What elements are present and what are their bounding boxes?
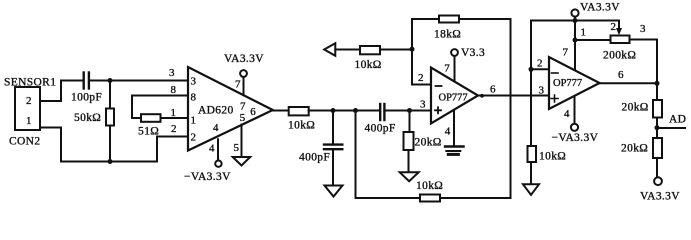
wire opamp pin7 (middle) — [444, 56, 454, 81]
svg-text:18kΩ: 18kΩ — [434, 29, 461, 41]
ground open triangle (10k right) — [523, 184, 539, 195]
svg-text:V3.3: V3.3 — [461, 47, 485, 59]
power V3.3 terminal (middle opamp) — [451, 47, 485, 59]
resistor R 10kΩ (pin2 to ground) — [528, 69, 567, 184]
node top of 50k — [108, 78, 113, 83]
svg-text:400pF: 400pF — [365, 123, 396, 135]
node VA3.3V on top rail — [573, 18, 578, 23]
svg-text:6: 6 — [618, 69, 624, 81]
node pot pin1 junction — [573, 38, 578, 43]
wire node AD — [657, 114, 686, 129]
node at middle output tip — [480, 94, 484, 98]
svg-text:−VA3.3V: −VA3.3V — [184, 171, 231, 183]
svg-text:4: 4 — [209, 143, 215, 155]
wire 100pF to AD620 pin3 — [90, 80, 188, 82]
wire connector pin1 bottom path to AD620 pin2 — [40, 128, 188, 162]
svg-text:20kΩ: 20kΩ — [622, 102, 649, 114]
node bottom of 50k — [108, 159, 113, 164]
wire 10k to inverting node — [380, 49, 412, 51]
svg-text:SENSOR1: SENSOR1 — [4, 77, 56, 89]
svg-text:2: 2 — [611, 21, 617, 33]
resistor R 18kΩ (feedback) — [412, 16, 511, 199]
capacitor C 400pF shunt — [299, 111, 342, 186]
node inverting input junction — [410, 47, 415, 52]
svg-text:7: 7 — [240, 101, 246, 113]
svg-text:10kΩ: 10kΩ — [355, 59, 382, 71]
resistor R 10kΩ (input) — [355, 46, 382, 71]
svg-text:10kΩ: 10kΩ — [416, 180, 443, 192]
svg-text:3: 3 — [539, 85, 545, 97]
svg-text:8: 8 — [171, 84, 177, 96]
svg-text:20kΩ: 20kΩ — [621, 143, 648, 155]
svg-text:3: 3 — [169, 67, 175, 79]
input port triangle — [324, 43, 335, 56]
wire AD620 pin5 — [234, 125, 242, 158]
ground open triangle (shunt cap) — [325, 186, 343, 197]
svg-text:8: 8 — [191, 92, 197, 104]
wire middle output to right opamp pin3 — [478, 84, 549, 96]
svg-text:1: 1 — [26, 115, 32, 127]
node pin2 right opamp — [529, 67, 534, 72]
svg-text:100pF: 100pF — [71, 92, 102, 104]
svg-text:OP777: OP777 — [553, 78, 582, 89]
svg-text:VA3.3V: VA3.3V — [224, 53, 264, 65]
svg-text:2: 2 — [537, 58, 543, 70]
wire pot pin1 — [575, 27, 611, 41]
wire series cap to opamp pin3 — [385, 110, 431, 112]
svg-text:3: 3 — [640, 23, 646, 35]
svg-text:2: 2 — [191, 132, 197, 144]
wire input to 10k — [335, 49, 360, 51]
wire top rail y=20.5 (pin2 net of right opamp) — [531, 21, 619, 70]
svg-text:1: 1 — [581, 27, 587, 39]
node AD tap — [655, 125, 660, 130]
svg-text:10kΩ: 10kΩ — [288, 120, 315, 132]
svg-text:3: 3 — [420, 99, 426, 111]
wire VA3.3V down to pin7 right opamp — [563, 21, 576, 70]
svg-text:4: 4 — [445, 126, 451, 138]
svg-text:OP777: OP777 — [439, 92, 468, 103]
wire AD620 pin8 down-left — [132, 96, 188, 119]
svg-text:200kΩ: 200kΩ — [603, 50, 636, 62]
wire bottom feedback loop — [356, 111, 511, 199]
svg-text:6: 6 — [490, 84, 496, 96]
svg-text:2: 2 — [171, 123, 177, 135]
svg-text:CON2: CON2 — [9, 136, 40, 148]
op-amp OP777 (right) — [537, 57, 600, 109]
wire right opamp output — [600, 69, 658, 83]
svg-text:10kΩ: 10kΩ — [539, 151, 566, 163]
wire right opamp pin4 — [564, 96, 575, 123]
svg-text:51Ω: 51Ω — [138, 126, 159, 138]
svg-text:50kΩ: 50kΩ — [74, 112, 101, 124]
svg-text:−VA3.3V: −VA3.3V — [552, 132, 599, 144]
svg-text:2: 2 — [418, 72, 424, 84]
wire pot pin3 to output node — [630, 40, 658, 84]
svg-text:AD: AD — [669, 114, 686, 126]
resistor R 20kΩ (middle shunt) — [404, 111, 442, 173]
svg-text:6: 6 — [250, 106, 256, 118]
op-amp OP777 (middle) — [418, 68, 478, 124]
svg-text:VA3.3V: VA3.3V — [640, 191, 680, 203]
resistor R 10kΩ (AD620 output) — [288, 107, 315, 132]
wire connector pin2 to 100pF — [40, 81, 83, 102]
power -VA3.3V terminal (AD620 pin4) — [184, 161, 231, 184]
capacitor C 100pF — [71, 73, 102, 104]
svg-text:4: 4 — [213, 122, 219, 134]
svg-text:5: 5 — [240, 112, 246, 124]
svg-text:7: 7 — [235, 79, 241, 91]
resistor R 20kΩ (upper right) — [622, 83, 663, 138]
wire vertical inverting node / pin2 — [412, 19, 431, 85]
wire AD620 pin7 — [235, 77, 244, 95]
resistor R 10kΩ (bottom feedback) — [416, 180, 443, 202]
svg-text:4: 4 — [564, 108, 570, 120]
svg-text:400pF: 400pF — [299, 152, 330, 164]
svg-text:1: 1 — [191, 115, 197, 127]
wire opamp pin4 (middle) — [445, 110, 454, 147]
resistor R 50kΩ — [74, 81, 114, 162]
node bottom loop tap — [353, 108, 358, 113]
capacitor C 400pF series — [365, 104, 396, 135]
svg-text:20kΩ: 20kΩ — [415, 137, 442, 149]
ground open triangle (20k middle) — [400, 172, 419, 181]
svg-text:1: 1 — [171, 107, 177, 119]
node output junction — [655, 81, 660, 86]
node 20k tap — [407, 108, 412, 113]
svg-text:3: 3 — [191, 76, 197, 88]
ground open triangle (AD620 pin5) — [233, 157, 251, 166]
potentiometer R 200kΩ — [603, 21, 646, 62]
wire AD620 pin4 — [209, 139, 218, 160]
svg-text:7: 7 — [563, 47, 569, 59]
svg-text:VA3.3V: VA3.3V — [580, 2, 620, 14]
wire to series cap — [309, 110, 379, 112]
connector CON2 SENSOR1 — [4, 77, 56, 148]
svg-text:5: 5 — [234, 142, 240, 154]
in-amp AD620 — [169, 67, 273, 151]
power VA3.3V terminal (AD620 pin7) — [224, 53, 264, 77]
power VA3.3V terminal (top right) — [571, 2, 620, 21]
wire AD620 output — [273, 110, 289, 112]
power -VA3.3V terminal (right opamp pin4) — [552, 124, 599, 144]
svg-text:AD620: AD620 — [198, 105, 234, 117]
wire pin2 into right opamp — [531, 68, 549, 70]
svg-text:2: 2 — [26, 95, 32, 107]
resistor R 51Ω — [138, 114, 188, 137]
resistor R 20kΩ (lower right) — [621, 138, 662, 177]
power VA3.3V terminal (bottom right) — [640, 177, 680, 202]
earth ground (middle opamp pin4) — [445, 147, 463, 155]
svg-text:7: 7 — [444, 63, 450, 75]
node shunt cap tap — [331, 108, 336, 113]
